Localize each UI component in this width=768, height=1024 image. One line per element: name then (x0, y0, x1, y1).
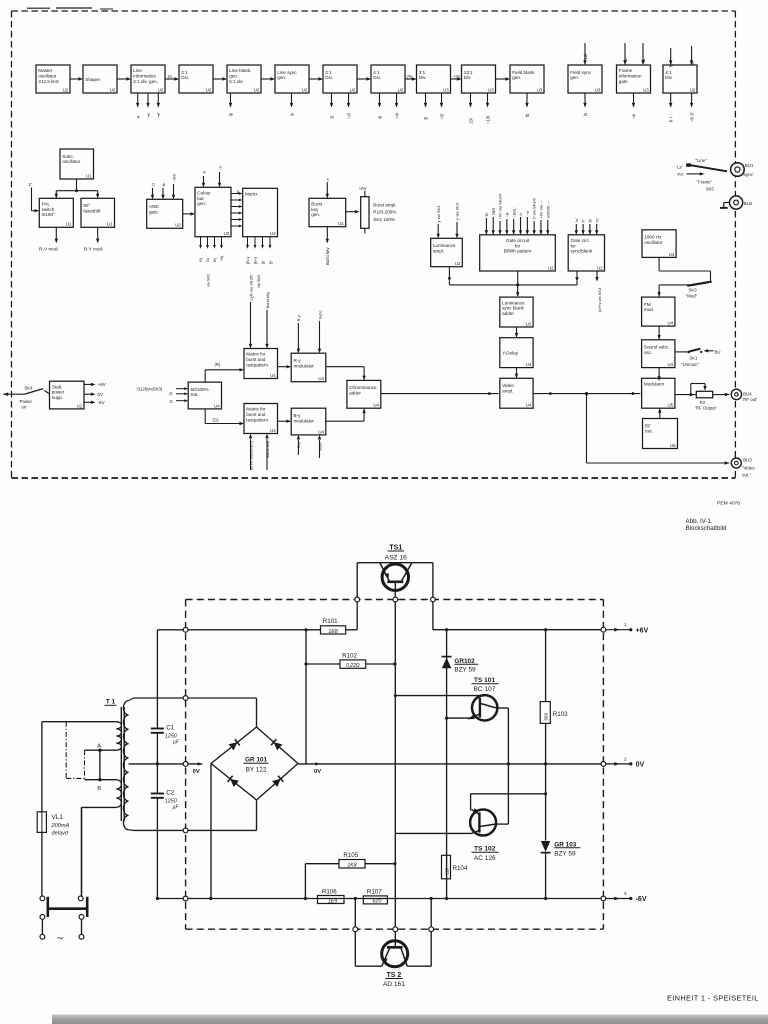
svg-text:fr l: fr l (669, 117, 674, 122)
svg-text:U4: U4 (318, 376, 324, 381)
svg-text:+6V: +6V (359, 186, 367, 191)
svg-text:gate: gate (149, 209, 158, 214)
svg-text:~e: ~e (217, 165, 222, 170)
svg-text:U3: U3 (537, 87, 543, 92)
svg-text:4:1: 4:1 (373, 70, 380, 75)
svg-text:GR 103: GR 103 (554, 841, 576, 848)
svg-text:U1: U1 (86, 173, 92, 178)
svg-text:B-Y mod.: B-Y mod. (84, 247, 103, 252)
svg-text:Burst: Burst (311, 202, 322, 207)
svg-text:~e': ~e' (525, 210, 530, 216)
svg-text:oscillator: oscillator (644, 240, 663, 245)
svg-text:312,5 kHz: 312,5 kHz (38, 79, 59, 84)
svg-text:R106: R106 (322, 888, 337, 895)
svg-text:adder: adder (502, 311, 514, 316)
svg-text:0V: 0V (314, 769, 321, 775)
svg-text:5:1 div: 5:1 div (229, 79, 243, 84)
svg-text:~4l: ~4l (394, 113, 399, 119)
svg-text:BC 107: BC 107 (474, 686, 496, 693)
svg-text:modulator: modulator (294, 418, 315, 423)
svg-text:~B6L': ~B6L' (511, 207, 516, 217)
svg-text:0V: 0V (98, 392, 105, 397)
svg-text:SK4: SK4 (24, 386, 33, 391)
svg-text:Luminance: Luminance (502, 300, 525, 305)
svg-text:U2: U2 (63, 87, 69, 92)
svg-text:EINHEIT 1 - SPEISETEIL: EINHEIT 1 - SPEISETEIL (667, 994, 759, 1003)
svg-text:1000 Hz: 1000 Hz (644, 235, 662, 240)
svg-text:Gate circ.: Gate circ. (571, 238, 591, 243)
svg-text:Subc: Subc (317, 442, 322, 451)
svg-text:testpattern: testpattern (246, 362, 268, 367)
svg-text:B-y: B-y (294, 413, 302, 418)
svg-text:U4: U4 (214, 403, 220, 408)
svg-text:0V: 0V (193, 769, 200, 775)
svg-text:Gate circuit: Gate circuit (506, 238, 530, 243)
svg-text:'b via SK1/6: 'b via SK1/6 (532, 198, 537, 220)
svg-text:via SK3: via SK3 (257, 275, 261, 288)
svg-text:~fr 2l: ~fr 2l (689, 113, 694, 122)
svg-text:3l: 3l (423, 117, 428, 120)
svg-text:2l: 2l (150, 183, 155, 186)
svg-text:U2: U2 (175, 223, 181, 228)
svg-text:560: 560 (544, 712, 549, 720)
svg-text:RF: RF (645, 423, 651, 428)
svg-text:sync blank: sync blank (502, 306, 524, 311)
svg-text:U2: U2 (254, 87, 260, 92)
svg-text:B-y: B-y (296, 442, 301, 448)
svg-text:R-y: R-y (294, 358, 302, 363)
svg-text:U1: U1 (107, 222, 113, 227)
svg-text:Ly/b via SK3/5: Ly/b via SK3/5 (248, 274, 253, 300)
svg-text:Blockschaltbild: Blockschaltbild (686, 525, 727, 532)
svg-text:U4: U4 (667, 321, 673, 326)
svg-text:“Video: “Video (742, 466, 755, 471)
svg-text:Luminance: Luminance (433, 243, 456, 248)
svg-text:U2: U2 (526, 321, 532, 326)
svg-text:Bl/Wh pattern: Bl/Wh pattern (504, 249, 532, 254)
svg-text:'Ls': 'Ls' (676, 165, 682, 170)
svg-text:(4l): (4l) (407, 74, 413, 79)
svg-text:BU: BU (715, 349, 721, 354)
svg-text:TS1: TS1 (389, 544, 402, 551)
svg-text:[R-y: [R-y (245, 257, 250, 264)
svg-text:R-V mod.: R-V mod. (39, 247, 59, 252)
svg-text:R102: R102 (342, 652, 357, 659)
svg-text:U2: U2 (270, 231, 276, 236)
svg-text:2:1: 2:1 (325, 70, 332, 75)
svg-text:fb': fb' (588, 218, 593, 222)
svg-text:"Line": "Line" (696, 158, 708, 163)
svg-text:Div.: Div. (181, 75, 189, 80)
svg-text:Matrix for: Matrix for (246, 352, 266, 357)
svg-text:faseshift: faseshift (83, 208, 101, 213)
svg-text:Shaper: Shaper (85, 77, 100, 82)
svg-text:gen.: gen. (512, 75, 521, 80)
svg-text:ls: ls (289, 113, 294, 116)
svg-text:for: for (515, 243, 521, 248)
svg-text:"Frame": "Frame" (697, 180, 713, 185)
svg-text:Matrix: Matrix (245, 192, 258, 197)
svg-text:Subc.: Subc. (62, 154, 74, 159)
svg-text:oscillator: oscillator (38, 74, 57, 79)
svg-text:[y: [y (260, 261, 265, 264)
svg-text:oscillator: oscillator (62, 159, 81, 164)
svg-text:ampl.: ampl. (502, 388, 513, 393)
svg-text:3:1: 3:1 (419, 70, 426, 75)
svg-text:R-y: R-y (296, 315, 301, 321)
svg-text:R: R (169, 391, 172, 396)
svg-text:Burst key: Burst key (265, 292, 270, 309)
svg-text:FM: FM (644, 302, 651, 307)
svg-text:U5: U5 (670, 443, 676, 448)
svg-text:Matrix for: Matrix for (246, 407, 266, 412)
svg-text:∼: ∼ (56, 933, 64, 944)
svg-text:~(3l): ~(3l) (452, 74, 461, 79)
svg-text:burst and: burst and (246, 412, 266, 417)
svg-text:4l: 4l (377, 116, 382, 119)
svg-text:~3l: ~3l (439, 114, 444, 120)
svg-text:AD 161: AD 161 (383, 981, 405, 988)
svg-text:620: 620 (373, 899, 382, 905)
svg-text:AC 126: AC 126 (474, 855, 496, 862)
svg-text:sync/blank: sync/blank (571, 249, 593, 254)
svg-text:U1: U1 (338, 221, 344, 226)
svg-text:C1: C1 (166, 725, 175, 732)
svg-text:Colour: Colour (197, 191, 211, 196)
svg-text:R: R (237, 190, 241, 193)
svg-text:G(: G( (205, 257, 210, 262)
svg-text:fb': fb' (484, 212, 489, 216)
svg-text:via SK2: via SK2 (207, 274, 211, 287)
svg-text:[y': [y' (268, 260, 273, 264)
svg-text:+6V: +6V (98, 382, 107, 387)
svg-text:Burst key: Burst key (265, 441, 270, 458)
svg-text:BU3: BU3 (743, 458, 752, 463)
svg-text:U4: U4 (270, 373, 276, 378)
svg-text:U4: U4 (270, 428, 276, 433)
svg-text:R104: R104 (453, 865, 468, 872)
svg-text:osc.: osc. (644, 350, 652, 355)
svg-text:0/180°: 0/180° (42, 212, 55, 217)
svg-text:wS/Wb ---: wS/Wb --- (545, 200, 550, 218)
svg-text:U4: U4 (373, 403, 379, 408)
svg-text:gen.: gen. (197, 201, 206, 206)
svg-text:B(: B( (212, 257, 217, 262)
svg-text:AND: AND (149, 204, 159, 209)
svg-text:200mA: 200mA (51, 823, 70, 829)
svg-text:(G): (G) (213, 418, 220, 423)
svg-text:U2: U2 (455, 261, 461, 266)
svg-text:BZY 59: BZY 59 (454, 666, 476, 673)
svg-text:out.”: out.” (742, 473, 751, 478)
svg-text:R105: R105 (343, 852, 358, 859)
svg-text:Sound subc.: Sound subc. (644, 345, 670, 350)
svg-text:~fr: ~fr (631, 113, 636, 119)
svg-text:~e: ~e (146, 113, 151, 118)
svg-text:Video: Video (502, 383, 514, 388)
svg-text:+6V: +6V (636, 627, 649, 634)
svg-text:U4: U4 (526, 362, 532, 367)
svg-text:C2: C2 (166, 790, 175, 797)
svg-text:ASZ 16: ASZ 16 (385, 554, 407, 561)
svg-text:Master: Master (38, 68, 53, 73)
svg-text:SK3: SK3 (689, 288, 698, 293)
svg-text:TS 101: TS 101 (474, 677, 496, 684)
svg-text:key: key (311, 207, 319, 212)
svg-text:y' via SK3: y' via SK3 (455, 202, 460, 220)
svg-text:U2: U2 (158, 87, 164, 92)
svg-text:13:1: 13:1 (464, 70, 473, 75)
svg-text:SK5: SK5 (706, 186, 715, 191)
svg-text:4:1: 4:1 (665, 70, 672, 75)
svg-text:Chrominance: Chrominance (349, 385, 377, 390)
svg-text:'ls': 'ls' (574, 218, 579, 223)
svg-text:Modulator: Modulator (644, 382, 665, 387)
svg-text:2: 2 (624, 756, 627, 761)
svg-text:Burst key: Burst key (325, 247, 330, 265)
svg-text:GR 101: GR 101 (245, 757, 267, 764)
svg-text:gate: gate (619, 79, 628, 84)
svg-text:U3: U3 (595, 87, 601, 92)
svg-text:'Sync': 'Sync' (742, 172, 754, 177)
svg-text:Div.: Div. (464, 75, 472, 80)
svg-text:2:1: 2:1 (181, 70, 188, 75)
svg-text:1: 1 (624, 622, 627, 627)
svg-text:TS 2: TS 2 (387, 972, 402, 979)
svg-text:~B(: ~B( (219, 255, 224, 262)
svg-text:U1: U1 (77, 403, 83, 408)
svg-text:U2: U2 (597, 265, 603, 270)
svg-text:~2l: ~2l (346, 113, 351, 119)
svg-text:'fs': 'fs' (594, 218, 599, 223)
svg-text:(R): (R) (215, 362, 221, 367)
svg-text:U2: U2 (548, 265, 554, 270)
svg-text:switch: switch (42, 207, 55, 212)
svg-text:gen.: gen. (311, 212, 320, 217)
svg-text:U4: U4 (526, 403, 532, 408)
svg-text:-6V: -6V (636, 896, 647, 903)
svg-text:µF: µF (173, 739, 180, 745)
svg-text:U2: U2 (690, 87, 696, 92)
svg-text:Abb. IV-1.: Abb. IV-1. (686, 518, 713, 525)
svg-text:U2: U2 (302, 87, 308, 92)
svg-text:SK2 100%: SK2 100% (373, 217, 395, 222)
svg-text:U2: U2 (224, 231, 230, 236)
svg-text:burst and: burst and (246, 357, 266, 362)
svg-text:Sat.: Sat. (191, 392, 199, 397)
svg-text:gen.: gen. (277, 75, 286, 80)
svg-text:(b/Ys via SK3: (b/Ys via SK3 (597, 287, 602, 312)
svg-text:fr': fr' (581, 219, 586, 222)
svg-text:~312l(viaSK3): ~312l(viaSK3) (135, 387, 163, 392)
svg-text:U2: U2 (350, 87, 356, 92)
svg-text:for: for (571, 243, 577, 248)
svg-text:µF: µF (173, 804, 180, 810)
svg-text:T 1: T 1 (106, 699, 116, 706)
svg-text:~e': ~e' (156, 112, 161, 118)
svg-text:osc.: osc. (645, 429, 653, 434)
svg-text:information: information (133, 74, 156, 79)
svg-text:gen.: gen. (229, 74, 238, 79)
svg-text:220: 220 (445, 867, 450, 875)
svg-text:[B-y: [B-y (253, 257, 258, 264)
svg-text:Line sync: Line sync (277, 70, 297, 75)
svg-text:1E9: 1E9 (328, 898, 337, 904)
svg-text:3l: 3l (689, 62, 694, 65)
svg-text:lb/Vb (viaSK3/2): lb/Vb (viaSK3/2) (248, 440, 253, 470)
svg-text:~13l: ~13l (583, 54, 588, 62)
svg-text:fs: fs (583, 113, 588, 116)
svg-text:R1/0-200%: R1/0-200% (373, 210, 396, 215)
svg-text:BU4: BU4 (743, 391, 752, 396)
svg-text:(e): (e) (168, 74, 173, 79)
svg-text:2': 2' (29, 182, 32, 187)
svg-text:+6V via SK3/4: +6V via SK3/4 (498, 193, 503, 219)
svg-text:Stab.: Stab. (52, 384, 63, 389)
svg-text:90°: 90° (83, 203, 90, 208)
svg-text:R107: R107 (367, 888, 382, 895)
svg-text:testpattern: testpattern (246, 417, 268, 422)
svg-text:R(: R( (198, 257, 203, 262)
svg-text:~B': ~B' (504, 211, 509, 217)
svg-text:2:1 div. gen.: 2:1 div. gen. (133, 79, 158, 84)
svg-text:BU2: BU2 (744, 201, 753, 206)
svg-text:Frame: Frame (619, 68, 633, 73)
svg-text:U2: U2 (206, 87, 212, 92)
svg-text:U2: U2 (398, 87, 404, 92)
svg-text:“Unmod.”: “Unmod.” (681, 362, 699, 367)
svg-text:0,22Ω: 0,22Ω (346, 663, 360, 669)
svg-text:U4: U4 (669, 252, 675, 257)
svg-text:Div.: Div. (373, 75, 381, 80)
svg-text:'RF out': 'RF out' (742, 397, 757, 402)
svg-text:modulator: modulator (294, 363, 315, 368)
svg-text:supp.: supp. (52, 395, 63, 400)
svg-text:~13l: ~13l (485, 116, 490, 124)
svg-text:U4: U4 (667, 362, 673, 367)
svg-text:3l: 3l (641, 59, 646, 62)
svg-text:R101: R101 (323, 618, 338, 625)
svg-text:PEM 4078: PEM 4078 (717, 500, 740, 506)
svg-text:'Fs': 'Fs' (677, 172, 684, 177)
svg-text:Field sync: Field sync (570, 70, 591, 75)
svg-text:Line: Line (133, 68, 142, 73)
svg-text:U1: U1 (66, 222, 72, 227)
svg-text:50/100%: 50/100% (191, 387, 209, 392)
svg-text:power: power (52, 390, 65, 395)
svg-text:BU1: BU1 (745, 163, 754, 168)
svg-text:13l: 13l (468, 118, 473, 124)
svg-text:Field blank: Field blank (512, 70, 535, 75)
svg-text:on': on' (22, 404, 28, 409)
svg-text:BZY 59: BZY 59 (554, 850, 576, 857)
svg-text:1K8: 1K8 (347, 863, 356, 869)
svg-text:mod.: mod. (644, 307, 654, 312)
svg-text:adder: adder (349, 391, 361, 396)
svg-text:U5: U5 (667, 403, 673, 408)
svg-text:Div.: Div. (419, 75, 427, 80)
svg-text:Line blank.: Line blank. (229, 68, 251, 73)
svg-text:ampl.: ampl. (433, 248, 444, 253)
svg-text:y via SK3: y via SK3 (436, 205, 441, 223)
svg-text:PAL: PAL (42, 202, 51, 207)
svg-text:U2: U2 (110, 87, 116, 92)
svg-text:information: information (619, 74, 642, 79)
svg-text:bar: bar (197, 196, 204, 201)
svg-text:'RF Output': 'RF Output' (695, 405, 717, 410)
svg-text:2l: 2l (329, 116, 334, 119)
svg-text:A: A (97, 744, 101, 750)
svg-text:B: B (97, 786, 101, 792)
svg-text:Y-Delay: Y-Delay (502, 350, 519, 355)
svg-text:VL1: VL1 (52, 814, 64, 821)
svg-text:“Mod”: “Mod” (686, 294, 698, 299)
svg-text:b': b' (518, 212, 523, 215)
svg-text:~3l2l: ~3l2l (171, 174, 176, 183)
svg-text:Burst ampl.: Burst ampl. (373, 203, 396, 208)
svg-text:3: 3 (624, 891, 627, 896)
svg-text:0V: 0V (636, 762, 645, 769)
svg-text:BY 122: BY 122 (246, 767, 267, 774)
svg-text:TS 102: TS 102 (474, 846, 496, 853)
svg-text:delayd: delayd (52, 830, 69, 836)
svg-text:U3: U3 (643, 87, 649, 92)
svg-text:Subc: Subc (317, 310, 322, 319)
svg-text:GR102: GR102 (454, 658, 475, 665)
svg-text:U3: U3 (443, 87, 449, 92)
svg-text:Div: Div (665, 75, 672, 80)
svg-text:U4: U4 (318, 429, 324, 434)
svg-text:2BR: 2BR (491, 208, 496, 216)
svg-text:U3: U3 (488, 87, 494, 92)
svg-text:Div.: Div. (325, 75, 333, 80)
svg-text:1E8: 1E8 (328, 629, 338, 635)
svg-text:R103: R103 (553, 711, 568, 718)
svg-text:+6V via ---: +6V via --- (539, 199, 544, 218)
svg-text:-6V: -6V (98, 400, 106, 405)
svg-text:SK1: SK1 (689, 356, 698, 361)
svg-text:gen.: gen. (570, 75, 579, 80)
